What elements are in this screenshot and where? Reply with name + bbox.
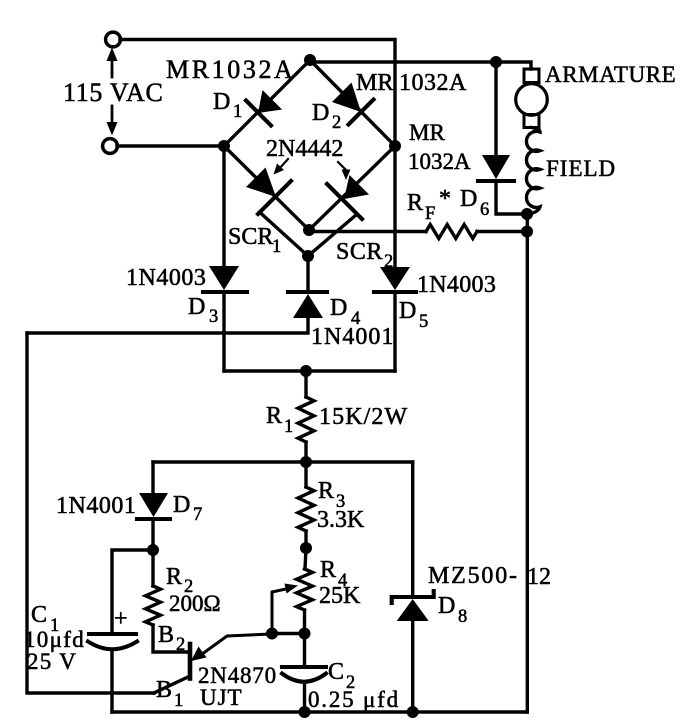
svg-text:UJT: UJT [200,685,243,710]
svg-text:B: B [156,677,172,703]
terminal top AC input [106,32,121,47]
resistor R1 15K/2W [266,371,408,462]
SCR2 gate lead [308,215,356,256]
svg-text:1N4003: 1N4003 [126,265,206,291]
svg-text:D: D [173,492,190,518]
wire trigger rail [153,460,413,463]
diode D2 MR1032A [310,60,467,146]
motor armature [516,62,677,128]
svg-text:200Ω: 200Ω [169,591,221,616]
svg-text:1: 1 [272,237,281,257]
svg-text:D: D [438,593,455,619]
resistor R2 200 ohm [146,550,221,652]
svg-text:25K: 25K [319,583,361,609]
node bridge top [304,54,316,66]
node R1 bottom [300,456,312,468]
node SCR cathodes [303,224,315,236]
svg-text:D: D [188,294,205,320]
node field bottom / D6 [521,208,533,220]
svg-text:0.25 μfd: 0.25 μfd [308,687,400,712]
svg-text:1032A: 1032A [399,70,467,96]
svg-text:7: 7 [193,505,202,525]
svg-text:1N4003: 1N4003 [417,272,496,298]
wire top AC rail to bridge right node [120,40,395,147]
svg-text:D: D [460,186,477,212]
node bridge right [389,140,401,152]
terminal bottom AC input [103,139,118,154]
svg-text:R: R [166,564,182,590]
node bus to R1 [300,365,312,377]
svg-text:MR: MR [409,120,445,145]
diode D7 1N4001 [56,462,202,550]
svg-text:12: 12 [527,564,551,590]
svg-text:115 VAC: 115 VAC [63,78,164,107]
svg-text:R: R [320,557,336,583]
R4 wiper arrow [272,589,286,633]
svg-text:SCR: SCR [336,239,383,265]
wire bridge output bus [224,369,395,372]
capacitor C2 0.25 ufd [282,634,400,713]
transistor Q1 UJT 2N4870 [154,622,277,711]
svg-text:D: D [330,295,347,321]
svg-text:8: 8 [458,607,467,627]
svg-text:+: + [114,606,128,632]
resistor RF* [309,186,527,239]
potentiometer R4 25K [272,548,361,634]
svg-text:1: 1 [174,691,183,711]
node RF to right rail [521,226,533,238]
node SCR gates [302,250,314,262]
SCR2 2N4442 [308,146,395,272]
node D7 cathode [147,544,159,556]
svg-text:2N4442: 2N4442 [266,136,343,162]
svg-text:SCR: SCR [228,224,273,250]
wire bottom AC to bridge left node [117,144,224,147]
svg-text:1032A: 1032A [408,149,471,174]
wire bridge top node to armature [310,62,531,69]
svg-text:ARMATURE: ARMATURE [545,62,676,87]
svg-text:*: * [439,186,451,212]
UJT emitter [198,634,272,657]
svg-text:F: F [425,204,435,224]
svg-text:D: D [399,298,416,324]
svg-text:5: 5 [419,312,428,332]
diode D6 MR1032A [408,62,526,220]
node wiper emitter [266,628,278,640]
wire right rail [526,214,529,712]
resistor R3 3.3K [298,462,365,548]
svg-text:R: R [407,190,423,216]
zener diode D8 MZ500-12 [392,462,551,712]
svg-text:6: 6 [480,200,489,220]
node D8 bottom [407,706,419,718]
inductor FIELD winding [526,128,616,214]
label 2N4442 with callout arrows [266,136,351,180]
svg-text:D: D [312,100,329,126]
svg-text:C: C [328,659,344,685]
svg-text:1: 1 [284,417,293,437]
svg-text:MR: MR [356,70,393,96]
svg-text:15K/2W: 15K/2W [319,404,408,430]
node R3 R4 junction [300,542,312,554]
svg-text:1N4001: 1N4001 [56,493,136,519]
node R4 bottom [299,628,311,640]
svg-text:B: B [158,622,174,648]
diode D5 1N4003 [374,146,496,371]
wire emitter to R4 bottom [272,632,305,635]
svg-text:MR1032A: MR1032A [166,55,295,84]
svg-text:C: C [31,602,47,628]
svg-text:R: R [318,478,334,504]
label 115 VAC with arrows [63,48,164,136]
wire left rail D4 to B1 [27,333,154,693]
SCR1 gate lead [260,213,308,257]
wire bottom rail [112,710,527,713]
svg-text:FIELD: FIELD [546,156,616,181]
svg-text:25 V: 25 V [27,649,77,674]
svg-text:2: 2 [176,635,185,655]
UJT base1 lead [154,677,188,693]
svg-text:2: 2 [332,113,341,133]
SCR1 2N4442 [224,146,309,257]
svg-text:3.3K: 3.3K [317,507,365,533]
svg-text:MZ500-: MZ500- [428,563,519,589]
svg-text:D: D [213,89,230,115]
svg-text:1: 1 [233,102,242,122]
diode D4 1N4001 [27,256,394,350]
diode D1 MR1032A [166,55,310,146]
svg-text:3: 3 [209,307,218,327]
diode D3 1N4003 [126,146,247,371]
node D6 branch [490,56,502,68]
node C2 bottom [299,706,311,718]
node bridge left [218,140,230,152]
svg-text:1N4001: 1N4001 [311,324,394,350]
capacitor C1 10ufd 25V [24,550,153,712]
svg-text:R: R [266,403,282,429]
